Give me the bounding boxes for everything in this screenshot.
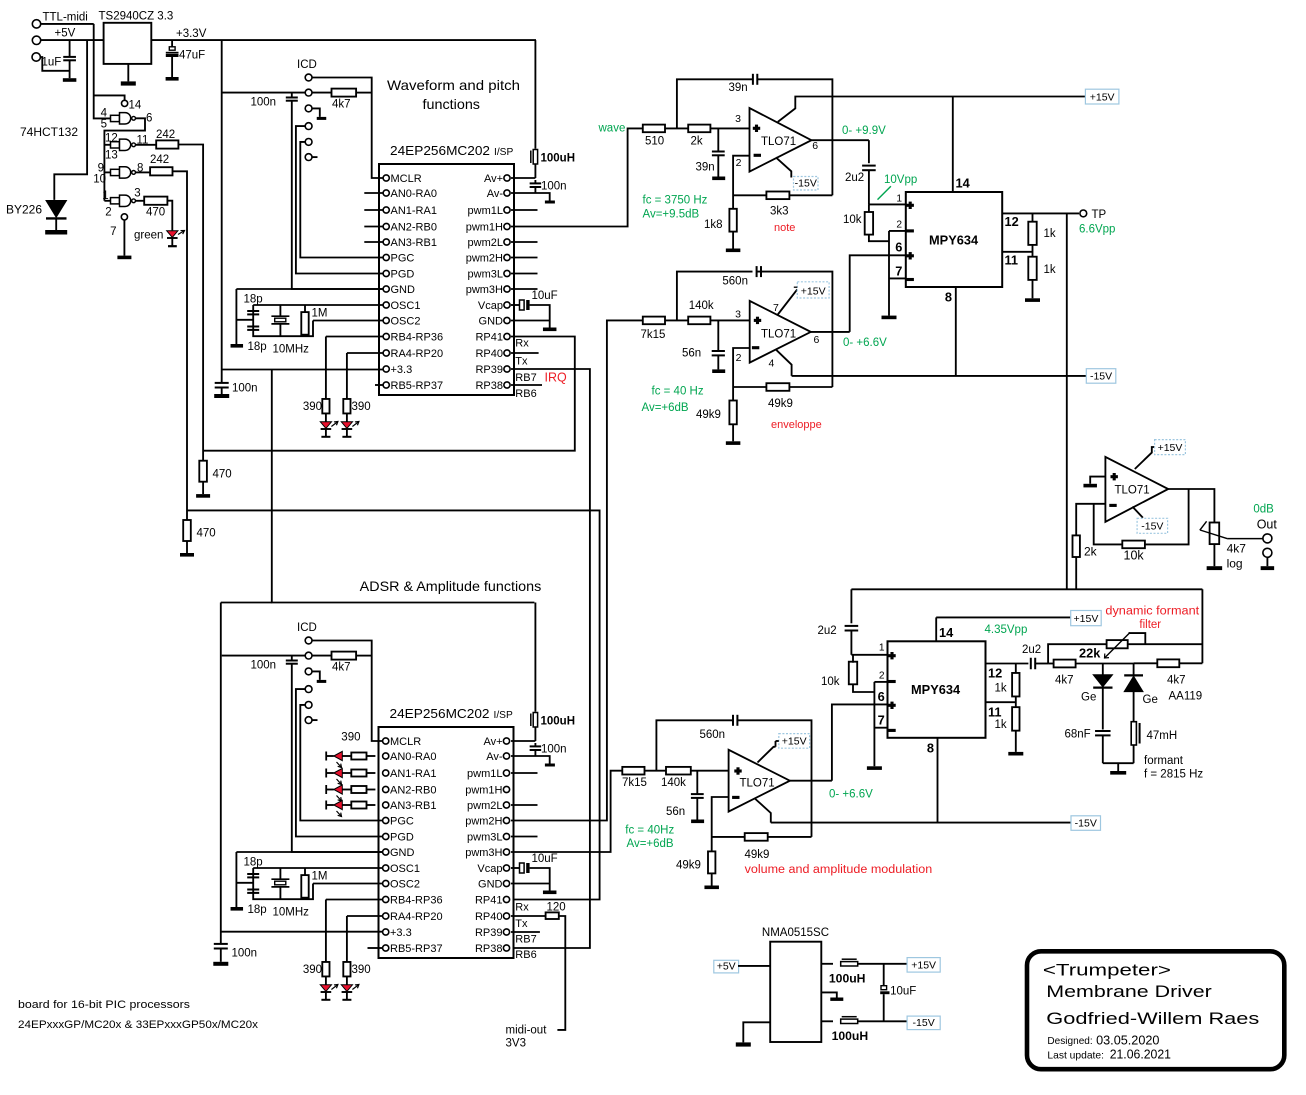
U1 pin AN3-RB1 (383, 239, 389, 245)
LED red (U1) at x=346.9 (346, 414, 348, 422)
svg-text:12: 12 (1005, 214, 1019, 229)
wire 4k7 to MCLR net (U1) (356, 92, 372, 94)
potentiometer 22k formant (1107, 640, 1128, 648)
wire mix rail (851, 588, 1202, 590)
resistor 242 (gate2 output) (156, 140, 178, 148)
svg-text:390: 390 (352, 401, 371, 413)
svg-text:24EP256MC202: 24EP256MC202 (390, 143, 490, 158)
svg-text:1uF: 1uF (42, 57, 62, 69)
wire supply input gnd (743, 1022, 770, 1042)
svg-text:18p: 18p (248, 904, 267, 916)
svg-text:4.35Vpp: 4.35Vpp (985, 624, 1028, 636)
inductor 100uH (U1 analog supply) (534, 40, 536, 149)
wire OSC2 (U3) (313, 883, 383, 885)
connector J1 TTL-midi pin (32, 20, 40, 28)
resistor 49k9 feedback (envelope) (733, 386, 766, 388)
wire opamp1 output (811, 139, 869, 141)
ground at ICD pin3 (U3) (317, 680, 327, 683)
wire pwm2H stub (U1) (511, 257, 538, 259)
wire -15V rail 2 (771, 822, 1071, 824)
svg-text:4k7: 4k7 (332, 662, 351, 674)
svg-text:100n: 100n (232, 948, 258, 960)
svg-text:10MHz: 10MHz (273, 344, 310, 356)
svg-text:10MHz: 10MHz (273, 907, 310, 919)
svg-text:AN3-RB1: AN3-RB1 (391, 237, 437, 249)
svg-text:-15V: -15V (795, 177, 817, 189)
diode D4 Ge AA119 up (1133, 663, 1135, 675)
svg-text:49k9: 49k9 (676, 860, 701, 872)
LED red AN2 (U3) (325, 785, 327, 794)
gate U2A pins 4,5 joined inputs (111, 115, 120, 121)
ground below regulator (121, 81, 136, 85)
ground below pin7 (117, 256, 131, 260)
wire RA4 to LED (U3) (347, 915, 383, 917)
wire opamp2 pin7 stub (778, 289, 798, 314)
wire to MPY2 pin1 (851, 654, 887, 656)
LED red (U3) at x=346.9 (346, 977, 348, 985)
svg-text:pwm3H: pwm3H (466, 284, 503, 296)
wire +15V output (821, 963, 833, 965)
svg-text:midi-out: midi-out (506, 1025, 548, 1037)
wire feedback top (560n env) (677, 272, 753, 321)
wire feedback top (39n) (677, 79, 753, 128)
svg-text:RP40: RP40 (475, 348, 503, 360)
wire +3.3V down left rail (221, 40, 223, 383)
wire mix rail corner down (1201, 589, 1203, 663)
wire pwm3H (U3) to volume filter (511, 771, 623, 852)
resistor 1k8 to ground (729, 209, 736, 232)
svg-text:GND: GND (478, 879, 503, 891)
svg-text:7: 7 (895, 264, 902, 279)
svg-text:Vcap: Vcap (477, 863, 502, 875)
wire 1uF to connector gnd (40, 57, 69, 71)
power label -15V (rail2) (1071, 816, 1101, 831)
wire inverting node 3 (712, 797, 729, 852)
U1 pin OSC1 (383, 302, 389, 308)
pin 14 of U2 (122, 100, 128, 106)
U3 pin Av+ (503, 738, 509, 744)
svg-text:RA4-RP20: RA4-RP20 (390, 911, 443, 923)
wire output to pot (1168, 489, 1214, 523)
U1 pin OSC2 (383, 317, 389, 323)
svg-text:AN2-RB0: AN2-RB0 (391, 222, 437, 234)
resistor 390 AN1 (U3) (342, 772, 351, 774)
svg-text:100n: 100n (541, 744, 567, 756)
svg-text:8: 8 (927, 741, 934, 756)
resistor 390 AN3 (U3) (342, 804, 351, 806)
resistor 10k (MPY1 X bias) (868, 204, 870, 212)
wire RP39 IRQ line to U3 RP38 (511, 369, 590, 948)
U1 pin RP40 (504, 350, 510, 356)
svg-text:BY226: BY226 (6, 203, 42, 217)
wire +5V rail to regulator (41, 39, 104, 41)
svg-text:1k: 1k (995, 719, 1007, 731)
svg-text:Designed:: Designed: (1047, 1036, 1092, 1047)
svg-text:12: 12 (988, 666, 1002, 681)
wire ICD pin4 PGD (U3) (296, 689, 383, 836)
wire MPY2 pin11 (986, 701, 1016, 703)
svg-text:enveloppe: enveloppe (771, 419, 822, 431)
U3 pin MCLR (383, 738, 389, 744)
svg-text:pwm2L: pwm2L (467, 800, 502, 812)
wire Av+ (U1) (511, 177, 535, 179)
svg-text:RB5-RP37: RB5-RP37 (391, 380, 444, 392)
power label -15V (rail) (1086, 369, 1116, 384)
ground below 47uF (166, 77, 179, 81)
resistor 1k divider A (MPY1) (1032, 213, 1034, 221)
svg-text:0- +9.9V: 0- +9.9V (842, 125, 886, 137)
svg-text:0- +6.6V: 0- +6.6V (843, 337, 887, 349)
U1 pin GND (504, 317, 510, 323)
svg-text:140k: 140k (689, 300, 714, 312)
U1 pin pwm3L (504, 270, 510, 276)
svg-text:GND: GND (390, 847, 415, 859)
svg-text:56n: 56n (666, 806, 685, 818)
wire RB5 stub (U1) (375, 384, 383, 386)
svg-text:100uH: 100uH (829, 972, 866, 986)
svg-text:pwm1H: pwm1H (465, 785, 502, 797)
svg-text:03.05.2020: 03.05.2020 (1096, 1033, 1159, 1048)
svg-text:TLO71: TLO71 (761, 136, 796, 148)
resistor 242 (gate3 output) (150, 167, 172, 175)
svg-text:-15V: -15V (1141, 521, 1163, 533)
power label +15V (MPY2) (1071, 611, 1102, 626)
U1 pin RB4-RP36 (383, 333, 389, 339)
wire left rail down to U3 +3.3 (220, 603, 222, 945)
svg-text:1M: 1M (312, 871, 328, 883)
LED red AN0 (U3) (325, 752, 327, 761)
U1 pin pwm3H (504, 286, 510, 292)
wire ICD pin1 to MCLR (U3) (312, 641, 383, 742)
U1 pin RP41 (504, 333, 510, 339)
wire crystal ground node (U3) (236, 882, 253, 884)
wire Av- to ground (U1) (511, 193, 550, 201)
svg-text:I/SP: I/SP (494, 147, 513, 158)
svg-text:+3.3: +3.3 (390, 927, 412, 939)
resistor 390 #2 (U3) (343, 962, 350, 977)
testpoint TP (1080, 210, 1087, 217)
svg-text:Godfried-Willem Raes: Godfried-Willem Raes (1046, 1009, 1259, 1028)
svg-text:4k7: 4k7 (1227, 541, 1247, 555)
wire gate2 input stub (104, 144, 110, 146)
wire to MPY1 pin1 (869, 203, 906, 205)
svg-text:RB4-RP36: RB4-RP36 (390, 895, 443, 907)
wire Vcap to ground (U3) (530, 868, 550, 891)
svg-text:ICD: ICD (297, 59, 317, 71)
U3 pin RP41 (503, 896, 509, 902)
wire RA4 to LED (U1) (347, 352, 383, 354)
power label +15V (output opamp) (1155, 440, 1186, 455)
svg-text:10k: 10k (821, 676, 840, 688)
svg-text:2: 2 (736, 352, 742, 364)
svg-text:I/SP: I/SP (494, 710, 513, 721)
op-amp U6 TLO71 envelope (750, 301, 811, 363)
wire opamp2 pin4 to -15V rail (776, 350, 792, 376)
U3 pin RP39 (503, 929, 509, 935)
U3 pin RB4-RP36 (383, 896, 389, 902)
ground below 49k9 (envelope) (726, 441, 741, 445)
resistor 470 Rx2 termination (183, 520, 191, 541)
wire pot wiper to out (1227, 538, 1263, 540)
svg-text:3k3: 3k3 (770, 206, 789, 218)
ground Vcap (U1) (543, 328, 557, 332)
U1 pin Av- (504, 190, 510, 196)
wire supply mid pin to ground (821, 992, 837, 997)
wire Vcap to ground (U1) (530, 305, 550, 328)
svg-text:140k: 140k (661, 777, 686, 789)
svg-text:MPY634: MPY634 (911, 682, 961, 697)
svg-text:pwm1L: pwm1L (468, 205, 503, 217)
wire 100n to GND pin (U1) (292, 101, 383, 289)
wire opamp out pin4 (1132, 507, 1143, 518)
wire RP39 stub (U3) (511, 931, 540, 933)
wire ICD pin6 stub (U1) (312, 156, 318, 158)
svg-text:Av+: Av+ (483, 736, 502, 748)
svg-text:10uF: 10uF (532, 290, 558, 302)
svg-text:2: 2 (879, 670, 885, 681)
svg-text:2k: 2k (1084, 545, 1098, 559)
svg-text:NMA0515SC: NMA0515SC (762, 927, 829, 939)
resistor 4k7 formant A (1054, 660, 1076, 668)
resistor 1k divider A (MPY2) (1015, 664, 1017, 673)
svg-text:pwm2H: pwm2H (466, 253, 503, 265)
wire pin7 to ground (123, 220, 125, 256)
svg-text:12: 12 (105, 133, 118, 145)
U3 pin RP38 (503, 945, 509, 951)
resistor 470 (LED series) (144, 197, 167, 205)
wire OSC2 (U1) (313, 320, 383, 322)
svg-text:10Vpp: 10Vpp (884, 174, 917, 186)
svg-text:pwm3H: pwm3H (465, 847, 502, 859)
gate U2C NAND body (120, 167, 131, 178)
svg-text:10uF: 10uF (532, 853, 558, 865)
svg-text:Ge: Ge (1143, 694, 1158, 706)
ground below 100n (U3) (213, 962, 228, 966)
wire pwm2H (U3) to envelope filter (511, 320, 643, 820)
ground below 56n (envelope) (712, 369, 725, 373)
svg-text:11: 11 (1005, 253, 1019, 268)
svg-text:+3.3V: +3.3V (176, 28, 207, 40)
svg-text:board for 16-bit PIC processor: board for 16-bit PIC processors (18, 999, 191, 1011)
power label +15V (opamp3) (779, 734, 810, 749)
op-amp U4 TLO71 note (750, 108, 812, 172)
svg-text:green: green (134, 230, 163, 242)
svg-text:RA4-RP20: RA4-RP20 (391, 348, 444, 360)
wire MPY2 pin14 to +15V (935, 617, 937, 641)
wire 510 to 2k junction (665, 127, 688, 129)
svg-text:22k: 22k (1079, 646, 1101, 661)
resistor 2k input (output) (1073, 535, 1080, 557)
U3 pin pwm2L (503, 802, 509, 808)
U3 pin +3.3 (383, 929, 389, 935)
svg-text:Av+: Av+ (484, 173, 503, 185)
svg-text:MCLR: MCLR (390, 736, 421, 748)
wire RP38 stub (U1) (511, 384, 542, 386)
svg-text:functions: functions (423, 96, 481, 112)
wire formant LC bottom (1103, 762, 1134, 764)
connector J1 GND pin (32, 53, 40, 61)
U3 pin OSC2 (383, 880, 389, 886)
wire to -15V label (858, 1020, 907, 1022)
potentiometer 4k7 log (1210, 523, 1220, 545)
svg-text:log: log (1227, 556, 1243, 570)
svg-text:RP40: RP40 (475, 911, 503, 923)
wire feedback top (560n vol) (656, 720, 733, 770)
connector Out ground (1263, 548, 1272, 557)
svg-text:f = 2815 Hz: f = 2815 Hz (1144, 769, 1203, 781)
U1 pin pwm2L (504, 239, 510, 245)
U1 pin RP39 (504, 366, 510, 372)
svg-text:AA119: AA119 (1169, 691, 1203, 703)
wire opamp1 pin7 to +15V (778, 97, 1086, 122)
wire output to 2u2 (note) (868, 140, 870, 163)
ground crystal (U3) (231, 907, 244, 911)
resistor 2k (688, 125, 710, 133)
svg-text:4k7: 4k7 (332, 99, 351, 111)
svg-text:ICD: ICD (297, 622, 317, 634)
wire gate3 output (135, 171, 150, 173)
svg-text:100n: 100n (541, 181, 567, 193)
wire RB4 to LED (U1) (326, 336, 383, 338)
svg-text:fc = 40Hz: fc = 40Hz (625, 825, 674, 837)
wire gate4 output (135, 200, 143, 202)
svg-text:2u2: 2u2 (1022, 644, 1041, 656)
wire to 140k (665, 319, 688, 321)
svg-text:note: note (774, 222, 795, 234)
svg-text:TP: TP (1092, 209, 1107, 221)
svg-text:13: 13 (105, 150, 118, 162)
resistor 1k divider B (MPY2) (1015, 696, 1017, 707)
wire RP40 Tx (U3) (511, 915, 546, 917)
svg-text:390: 390 (352, 964, 371, 976)
svg-text:+15V: +15V (801, 285, 826, 297)
svg-text:24EP256MC202: 24EP256MC202 (390, 706, 490, 721)
svg-text:390: 390 (303, 964, 322, 976)
wire regulator ground (127, 64, 129, 82)
svg-text:volume and amplitude modulatio: volume and amplitude modulation (745, 864, 933, 876)
wire ICD pin5 PGC (U3) (300, 705, 382, 821)
resistor 140k (envelope) (688, 317, 710, 325)
svg-text:68nF: 68nF (1065, 729, 1091, 741)
svg-text:Vcap: Vcap (478, 300, 503, 312)
wire pwm stubs (U1) (511, 209, 538, 211)
svg-text:RB4-RP36: RB4-RP36 (391, 332, 444, 344)
ground supply input (736, 1042, 751, 1046)
resistor 4k7 MCLR pullup (U1) (332, 89, 357, 97)
wire feedback (output opamp) (1094, 489, 1189, 544)
resistor 49k9 to ground (envelope) (729, 401, 736, 425)
wire formant node up to pot (1048, 644, 1107, 663)
svg-text:39n: 39n (696, 161, 715, 173)
wire to 140k (volume) (645, 770, 667, 772)
capacitor 10uF Vcap (U3) (511, 867, 520, 869)
ground below 100n (U1) (214, 394, 229, 398)
svg-text:wave: wave (598, 123, 626, 135)
svg-text:TLO71: TLO71 (740, 778, 775, 790)
wire 140k to opamp3 + (691, 770, 729, 772)
U3 pin RP40 (503, 913, 509, 919)
svg-text:TS2940CZ 3.3: TS2940CZ 3.3 (99, 11, 174, 23)
svg-text:100n: 100n (232, 383, 258, 395)
wire pwm1H to wave node (511, 128, 643, 226)
svg-text:6: 6 (895, 240, 902, 255)
svg-text:Av-: Av- (487, 188, 504, 200)
svg-text:49k9: 49k9 (745, 849, 770, 861)
ground below 49k9 (volume) (704, 886, 719, 890)
svg-text:dynamic formant: dynamic formant (1105, 606, 1200, 618)
svg-text:470: 470 (213, 469, 232, 481)
svg-text:-15V: -15V (913, 1017, 935, 1029)
LED red (U3) at x=325.9 (325, 977, 327, 985)
svg-text:7: 7 (878, 713, 885, 728)
wire +5V to supply (738, 965, 770, 967)
U3 pin RB5-RP37 (383, 945, 389, 951)
wire ICD pin3 to ground (U1) (312, 108, 320, 117)
LED red (U1) at x=325.9 (325, 414, 327, 422)
wire MPY2 pin6 from volume filter (832, 704, 888, 780)
wire MPY2 pin12 output (986, 663, 1029, 665)
ground Av- (U3) (545, 764, 555, 767)
gate U2D NAND body (120, 195, 131, 206)
svg-text:3V3: 3V3 (506, 1038, 526, 1050)
power label -15V (supply) (907, 1016, 940, 1030)
svg-text:AN2-RB0: AN2-RB0 (390, 785, 436, 797)
U3 pin pwm1L (503, 770, 509, 776)
ground below 470 Rx2 (180, 553, 194, 557)
wire crystal ground node (U1) (236, 319, 253, 321)
U1 pin RA4-RP20 (383, 350, 389, 356)
svg-text:AN1-RA1: AN1-RA1 (390, 768, 436, 780)
svg-text:TLO71: TLO71 (1115, 485, 1150, 497)
gate U2A NAND body (120, 113, 131, 124)
capacitor 47uF (169, 47, 175, 50)
ground below divider (MPY1) (1025, 298, 1040, 302)
wire TP down to mix rail (1066, 213, 1068, 589)
wire gate3 input stub (104, 171, 110, 173)
wire inverting node 2 (733, 348, 750, 401)
resistor 49k9 feedback (volume) (712, 836, 745, 838)
resistor 390 AN2 (U3) (342, 789, 351, 791)
svg-text:RB6: RB6 (515, 388, 536, 400)
resistor 390 #1 (U1) (322, 399, 329, 414)
wire GND pin right (U3) (511, 883, 550, 885)
resistor 10k feedback (output) (1122, 541, 1145, 549)
ground MPY2 inputs (867, 766, 882, 770)
ground below 1k8 (726, 249, 741, 253)
svg-text:RP41: RP41 (475, 332, 503, 344)
svg-text:formant: formant (1144, 755, 1184, 767)
svg-text:+15V: +15V (1090, 91, 1115, 103)
svg-text:18p: 18p (244, 857, 263, 869)
wire ICD pin3 to ground (U3) (312, 671, 320, 680)
svg-text:Av-: Av- (486, 751, 503, 763)
svg-text:RP39: RP39 (475, 927, 503, 939)
wire opamp1 pin4 to -15V (776, 157, 791, 177)
multiplier U9 MPY634 (888, 641, 986, 738)
svg-text:Last update:: Last update: (1047, 1050, 1104, 1061)
svg-text:1M: 1M (312, 308, 328, 320)
wire opamp3 output (790, 780, 832, 782)
resistor 510 (643, 125, 665, 133)
svg-text:6: 6 (878, 689, 885, 704)
power label +5V (supply) (714, 960, 739, 973)
LED red AN1 (U3) (325, 769, 327, 778)
svg-text:AN0-RA0: AN0-RA0 (391, 188, 437, 200)
svg-text:OSC1: OSC1 (390, 863, 420, 875)
wire pot wiper tie (1129, 633, 1146, 644)
wire mix rail to 2u2 (MPY2) (850, 589, 852, 623)
U3 pin AN2-RB0 (383, 786, 389, 792)
